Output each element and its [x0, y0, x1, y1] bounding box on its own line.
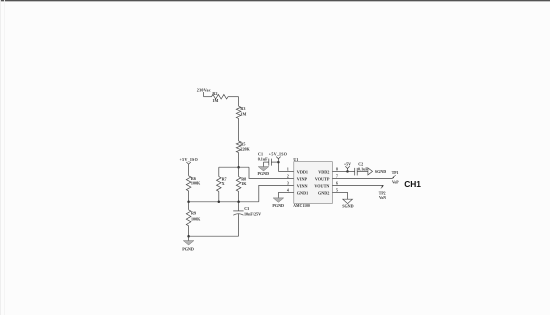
node VINN junction C: [237, 201, 240, 204]
wire: [238, 97, 240, 107]
svg-text:PGND: PGND: [182, 247, 194, 252]
svg-text:VoN: VoN: [379, 196, 386, 200]
svg-text:SGND: SGND: [342, 204, 353, 209]
svg-text:0.1uF: 0.1uF: [258, 157, 268, 162]
svg-text:VDD1: VDD1: [297, 170, 308, 175]
left page edge lines: [0, 0, 2, 315]
wire: [203, 92, 205, 97]
node VINN junction B: [218, 201, 221, 204]
op-amp U1 AMC1100 body: [294, 162, 333, 204]
svg-text:230Vac: 230Vac: [197, 87, 211, 92]
svg-text:TP2: TP2: [379, 192, 386, 196]
resistor R8: [236, 177, 241, 192]
svg-text:VOUTP: VOUTP: [315, 177, 330, 182]
wire: [188, 226, 190, 236]
svg-text:4: 4: [287, 189, 289, 193]
svg-text:TP1: TP1: [392, 171, 399, 175]
resistor R6: [186, 176, 191, 191]
wire: [189, 201, 259, 203]
resistor R3: [236, 106, 241, 118]
wire: [278, 170, 293, 172]
svg-text:+5V_ISO: +5V_ISO: [269, 152, 288, 157]
svg-text:6: 6: [336, 182, 338, 186]
wire: [249, 167, 294, 178]
svg-text:1M: 1M: [212, 98, 218, 103]
resistor R5: [236, 141, 241, 153]
svg-text:CH1: CH1: [404, 179, 421, 189]
svg-text:2: 2: [287, 175, 289, 179]
node VINN junction A: [187, 201, 190, 204]
svg-text:220K: 220K: [240, 146, 250, 151]
wire: [348, 170, 355, 172]
svg-text:7: 7: [336, 175, 338, 179]
capacitor C3: [233, 210, 243, 212]
ground PGND (pin 4): [273, 198, 284, 202]
wire: [264, 161, 269, 163]
wire: [259, 185, 294, 201]
wire: [218, 191, 220, 201]
wire: [332, 184, 383, 186]
wire: [332, 177, 392, 179]
svg-text:0.1uF: 0.1uF: [358, 166, 368, 171]
svg-text:+5V_ISO: +5V_ISO: [180, 157, 199, 162]
svg-text:GND1: GND1: [297, 191, 308, 196]
wire: [332, 170, 347, 172]
svg-text:VoP: VoP: [392, 180, 399, 184]
node VDD2 junction: [346, 170, 349, 173]
svg-text:R3: R3: [240, 106, 245, 111]
wire: [238, 191, 240, 201]
svg-text:R9: R9: [191, 210, 196, 215]
resistor R9: [188, 202, 190, 210]
resistor R2: [212, 94, 229, 99]
test point TP1: [392, 175, 395, 178]
svg-text:C2: C2: [358, 162, 363, 167]
ground SGND (pin 5): [343, 199, 353, 203]
wire: [357, 170, 368, 172]
ground PGND (bottom left): [188, 236, 190, 240]
wire: [219, 166, 249, 168]
wire: [238, 214, 240, 236]
svg-text:1M: 1M: [240, 111, 246, 116]
node VINP junction: [237, 166, 240, 169]
wire: [278, 191, 293, 193]
svg-text:GND2: GND2: [318, 191, 329, 196]
svg-text:C3: C3: [244, 206, 249, 211]
ground SGND (off-page, right of C2): [368, 168, 373, 175]
svg-text:5: 5: [336, 189, 338, 193]
svg-text:X: X: [222, 181, 225, 186]
node VDD1 junction: [277, 161, 280, 164]
svg-text:1K: 1K: [241, 181, 247, 186]
svg-text:PGND: PGND: [272, 203, 284, 208]
svg-text:100K: 100K: [191, 216, 201, 221]
svg-text:+5V: +5V: [344, 162, 351, 167]
wire: [188, 191, 190, 202]
svg-text:VOUTN: VOUTN: [314, 184, 329, 189]
wire: [238, 167, 240, 176]
wire: [332, 191, 347, 193]
node PGND junction: [187, 235, 190, 238]
wire: [228, 96, 239, 98]
svg-text:AMC1100: AMC1100: [293, 204, 310, 208]
svg-text:VINP: VINP: [297, 177, 308, 182]
svg-text:3: 3: [287, 182, 289, 186]
ground PGND (at C1): [258, 167, 269, 171]
svg-text:PGND: PGND: [257, 171, 269, 176]
svg-text:R2: R2: [212, 91, 217, 96]
capacitor C2: [354, 168, 356, 176]
svg-text:U1: U1: [293, 157, 298, 162]
svg-text:1: 1: [287, 168, 289, 172]
top page border: [0, 0, 550, 1]
svg-text:VDD2: VDD2: [318, 170, 329, 175]
wire: [271, 161, 278, 163]
svg-text:C1: C1: [258, 152, 263, 157]
wire: [218, 167, 220, 176]
svg-text:10nF/25V: 10nF/25V: [244, 211, 261, 216]
svg-text:100K: 100K: [191, 180, 201, 185]
svg-text:VINN: VINN: [297, 184, 308, 189]
wire: [189, 235, 239, 237]
resistor R7: [217, 177, 222, 192]
svg-text:SGND: SGND: [375, 169, 386, 174]
wire: [238, 119, 240, 142]
test point TP2: [381, 186, 384, 189]
wire: [238, 153, 240, 168]
svg-text:8: 8: [336, 168, 338, 172]
capacitor C1: [270, 159, 272, 166]
